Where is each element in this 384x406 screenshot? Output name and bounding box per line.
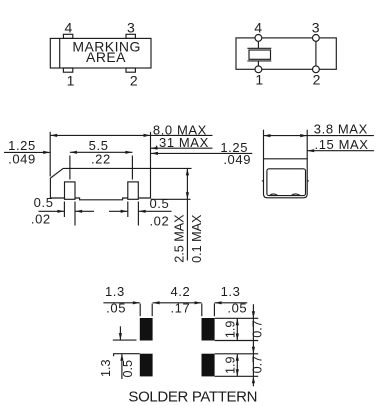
- dimension arrows 0.5 right lead: [109, 210, 172, 213]
- svg-text:0.1 MAX: 0.1 MAX: [190, 214, 204, 263]
- svg-text:.31 MAX: .31 MAX: [155, 135, 209, 150]
- extension line right bottom pad top: [215, 353, 259, 355]
- dimension line .31 MAX: [151, 147, 213, 150]
- pin 3 tab (top view): [126, 34, 135, 38]
- svg-text:SOLDER PATTERN: SOLDER PATTERN: [128, 388, 257, 405]
- svg-text:1.3: 1.3: [221, 284, 241, 299]
- svg-text:.05: .05: [106, 300, 126, 315]
- dimension line 1.3 top left: [103, 301, 139, 304]
- pin number 1 (top view): [67, 73, 75, 89]
- value .31 MAX: [155, 135, 209, 150]
- extension line right bottom pad bottom: [215, 375, 259, 377]
- pin 4 terminal circle: [255, 35, 262, 42]
- marking area label line 2: [86, 49, 126, 65]
- extension line body left edge: [49, 132, 51, 177]
- extension line top pad bottom (left): [113, 339, 137, 341]
- pin number 4 (circuit): [254, 20, 262, 36]
- value .02 right: [149, 214, 169, 229]
- value .049 right: [223, 152, 251, 167]
- value 1.3 top left: [105, 284, 125, 299]
- solder pad 4 (top left): [140, 318, 153, 341]
- svg-text:1.9: 1.9: [223, 321, 237, 339]
- dimension line 0.7 chain: [252, 304, 255, 386]
- pin 3 terminal circle: [313, 35, 320, 42]
- dimension line 1.3 top right: [215, 301, 248, 304]
- front view right lead: [128, 182, 139, 199]
- svg-text:3: 3: [127, 20, 135, 36]
- value 0.5 left: [34, 195, 54, 210]
- value .05 top right: [227, 300, 247, 315]
- dimension line 2.5 MAX / 0.1 MAX vertical: [186, 168, 189, 260]
- extension line pad right edge: [151, 304, 153, 317]
- equivalent circuit outline: [236, 38, 336, 69]
- svg-text:.049: .049: [223, 152, 251, 167]
- dimension arrows 0.5 left lead: [39, 210, 95, 213]
- extension line body right edge: [150, 132, 152, 168]
- crystal X1 top plate: [247, 47, 271, 49]
- dimension line 8.0 MAX: [50, 134, 212, 137]
- svg-text:.05: .05: [227, 300, 247, 315]
- svg-text:2: 2: [130, 73, 138, 89]
- svg-text:3: 3: [312, 20, 320, 36]
- svg-text:2.5 MAX: 2.5 MAX: [173, 214, 187, 263]
- svg-text:1.3: 1.3: [105, 284, 125, 299]
- svg-text:.049: .049: [8, 151, 36, 166]
- svg-text:0.7: 0.7: [250, 356, 264, 374]
- pin 1 terminal circle: [255, 66, 262, 73]
- dimension line 1.25 right: [151, 152, 252, 155]
- solder pad 2 (bottom right): [202, 354, 215, 377]
- front view body outline with chamfer: [50, 168, 150, 199]
- wire pin4 to crystal: [257, 41, 259, 48]
- value 0.5 rotated left: [121, 360, 135, 378]
- wire crystal to pin1: [257, 61, 259, 66]
- extension line seating plane right: [151, 198, 191, 200]
- value 1.9 rotated top: [223, 321, 237, 339]
- svg-text:0.5: 0.5: [121, 360, 135, 378]
- side view outer body outline: [264, 159, 308, 198]
- dimension line 1.25 left: [4, 151, 50, 154]
- svg-text:1.3: 1.3: [99, 359, 113, 377]
- value 0.7 rotated bottom: [250, 356, 264, 374]
- pin 2 terminal circle: [313, 66, 320, 73]
- dimension line .15 MAX: [307, 149, 374, 152]
- crystal X1 body: [249, 50, 271, 59]
- dimension line 1.9 bottom pad: [236, 354, 239, 377]
- value 1.25 right: [220, 140, 248, 155]
- svg-text:2: 2: [313, 72, 321, 88]
- value 8.0 MAX: [153, 122, 207, 137]
- side view inner lid outline: [267, 169, 306, 196]
- crystal X1 bottom plate: [247, 60, 271, 62]
- side view left lead foot: [270, 194, 278, 195]
- solder pad 1 (bottom left): [140, 354, 153, 377]
- svg-text:.22: .22: [91, 151, 111, 166]
- pin number 2 (top view): [130, 73, 138, 89]
- side view left notch tick: [262, 180, 264, 182]
- dimension line 3.8 MAX: [264, 134, 374, 137]
- solder pad 3 (top right): [202, 318, 215, 341]
- extension line right pad right edge: [213, 304, 215, 317]
- pin 4 tab (top view): [63, 34, 72, 38]
- svg-text:.17: .17: [170, 300, 190, 315]
- wire pin3 to pin2: [315, 41, 317, 66]
- extension line right pads top: [215, 317, 259, 319]
- value .22: [91, 151, 111, 166]
- svg-text:3.8 MAX: 3.8 MAX: [314, 121, 368, 136]
- extension line right lead left edge: [127, 202, 129, 218]
- value 2.5 MAX rotated: [173, 214, 187, 263]
- side view right lead foot: [291, 194, 300, 195]
- extension line left lead left edge: [63, 202, 65, 218]
- pin number 1 (circuit): [255, 72, 263, 88]
- side view right notch tick: [307, 180, 309, 182]
- svg-text:0.7: 0.7: [250, 320, 264, 338]
- value .02 left: [31, 211, 51, 226]
- value 1.3 rotated left: [99, 359, 113, 377]
- svg-text:1.9: 1.9: [223, 356, 237, 374]
- pin 2 tab (top view): [126, 68, 135, 72]
- extension line left lead right edge: [74, 202, 76, 226]
- dimension line 5.5: [70, 151, 132, 154]
- value 4.2: [170, 284, 190, 299]
- value 1.25 left: [8, 138, 36, 153]
- dimension arrow up gap left: [120, 354, 123, 379]
- svg-text:4: 4: [64, 20, 72, 36]
- value 3.8 MAX: [314, 121, 368, 136]
- extension line left lead center: [69, 156, 71, 180]
- extension line right lead center: [131, 156, 133, 180]
- extension line right top pad bottom: [215, 340, 259, 342]
- caption SOLDER PATTERN: [128, 388, 257, 405]
- value .15 MAX: [315, 137, 369, 152]
- pin number 3 (circuit): [312, 20, 320, 36]
- dimension line 1.9 top pad: [236, 318, 239, 340]
- svg-text:1: 1: [255, 72, 263, 88]
- extension line bottom pad top (left): [113, 353, 140, 355]
- value .17: [170, 300, 190, 315]
- tick at extension end: [113, 354, 115, 357]
- svg-text:1: 1: [67, 73, 75, 89]
- svg-text:4.2: 4.2: [170, 284, 190, 299]
- svg-text:.15 MAX: .15 MAX: [315, 137, 369, 152]
- value 1.9 rotated bottom: [223, 356, 237, 374]
- value 1.3 top right: [221, 284, 241, 299]
- pin number 2 (circuit): [313, 72, 321, 88]
- svg-text:.02: .02: [31, 211, 51, 226]
- top view body outline: [50, 38, 151, 68]
- pin number 3 (top view): [127, 20, 135, 36]
- top view left cap divider line: [59, 38, 61, 68]
- value 0.5 right: [149, 196, 169, 211]
- pin number 4 (top view): [64, 20, 72, 36]
- extension line body top right: [151, 167, 192, 169]
- dimension arrow down gap left: [119, 326, 122, 340]
- side view right extension line: [306, 130, 308, 159]
- svg-text:4: 4: [254, 20, 262, 36]
- value .049 left: [8, 151, 36, 166]
- value 5.5: [89, 138, 109, 153]
- value 0.7 rotated top: [250, 320, 264, 338]
- dimension line 4.2: [153, 301, 202, 304]
- svg-text:0.5: 0.5: [34, 195, 54, 210]
- svg-text:0.5: 0.5: [149, 196, 169, 211]
- extension line pad left edge: [139, 304, 141, 317]
- value 0.1 MAX rotated: [190, 214, 204, 263]
- extension line right pad left edge: [201, 304, 203, 317]
- svg-text:.02: .02: [149, 214, 169, 229]
- front view left lead: [65, 182, 76, 199]
- side view left extension line: [263, 130, 265, 159]
- marking area label line 1: [72, 38, 141, 54]
- extension line right lead right edge: [137, 202, 139, 226]
- pin 1 tab (top view): [63, 68, 72, 72]
- svg-text:AREA: AREA: [86, 49, 126, 65]
- value .05 top left: [106, 300, 126, 315]
